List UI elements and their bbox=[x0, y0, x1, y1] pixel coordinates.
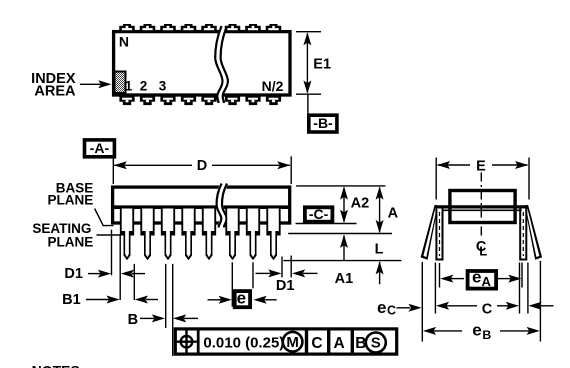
svg-text:B: B bbox=[482, 328, 491, 342]
svg-text:e: e bbox=[472, 268, 481, 287]
svg-text:PLANE: PLANE bbox=[48, 235, 94, 250]
svg-text:A1: A1 bbox=[335, 271, 354, 287]
svg-text:M: M bbox=[286, 334, 299, 351]
svg-text:A: A bbox=[482, 274, 492, 289]
svg-text:N: N bbox=[119, 33, 129, 49]
svg-text:S: S bbox=[371, 335, 381, 352]
svg-text:B: B bbox=[128, 312, 138, 328]
svg-text:PLANE: PLANE bbox=[48, 193, 94, 208]
svg-text:A: A bbox=[333, 335, 344, 352]
svg-text:D1: D1 bbox=[276, 278, 295, 294]
svg-text:A2: A2 bbox=[351, 196, 370, 212]
svg-text:E: E bbox=[476, 158, 486, 174]
svg-text:2: 2 bbox=[140, 79, 148, 94]
svg-text:E1: E1 bbox=[313, 56, 331, 72]
svg-text:B1: B1 bbox=[62, 292, 81, 308]
svg-text:L: L bbox=[479, 244, 487, 259]
svg-text:N/2: N/2 bbox=[262, 78, 284, 94]
svg-text:C: C bbox=[311, 335, 322, 352]
svg-text:D: D bbox=[197, 158, 207, 174]
svg-text:0.010 (0.25): 0.010 (0.25) bbox=[203, 335, 284, 352]
svg-text:AREA: AREA bbox=[34, 84, 76, 100]
svg-text:C: C bbox=[482, 302, 493, 318]
svg-text:C: C bbox=[387, 304, 396, 318]
svg-text:e: e bbox=[377, 298, 386, 317]
svg-text:-A-: -A- bbox=[90, 140, 110, 156]
svg-text:L: L bbox=[375, 241, 384, 257]
svg-text:D1: D1 bbox=[64, 266, 83, 282]
svg-text:-C-: -C- bbox=[309, 206, 329, 222]
svg-text:A: A bbox=[388, 205, 399, 221]
svg-text:e: e bbox=[472, 320, 481, 339]
svg-text:-B-: -B- bbox=[313, 115, 333, 131]
svg-text:NOTES:: NOTES: bbox=[32, 362, 85, 368]
svg-text:1: 1 bbox=[125, 79, 133, 94]
svg-text:e: e bbox=[237, 289, 246, 308]
svg-text:3: 3 bbox=[159, 79, 167, 94]
